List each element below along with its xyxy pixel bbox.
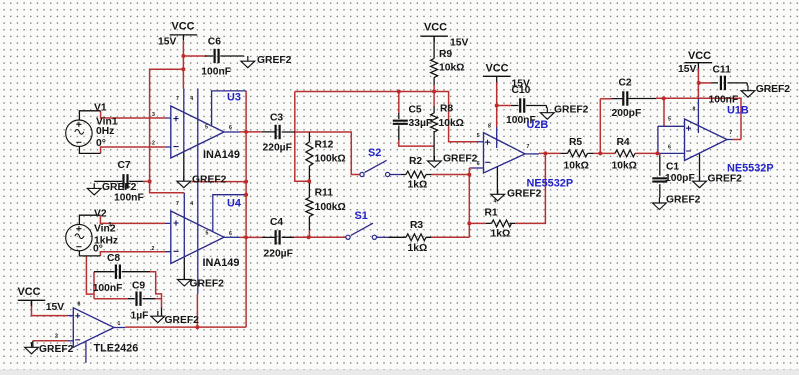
svg-text:VCC: VCC (424, 22, 447, 34)
svg-text:C11: C11 (713, 64, 732, 75)
svg-text:C10: C10 (512, 85, 531, 96)
svg-text:6: 6 (668, 145, 671, 151)
svg-text:10kΩ: 10kΩ (439, 118, 464, 129)
svg-text:C9: C9 (132, 280, 145, 291)
svg-text:5: 5 (477, 133, 480, 139)
svg-text:8: 8 (78, 301, 81, 307)
svg-text:5: 5 (668, 117, 671, 123)
svg-text:VCC: VCC (688, 50, 711, 62)
svg-text:10kΩ: 10kΩ (564, 160, 589, 171)
svg-text:15V: 15V (46, 302, 64, 313)
svg-text:R4: R4 (617, 137, 630, 148)
svg-text:0°: 0° (93, 244, 103, 255)
svg-text:7: 7 (176, 201, 179, 207)
svg-text:7: 7 (527, 144, 530, 150)
svg-text:C6: C6 (208, 36, 221, 47)
svg-text:U2B: U2B (527, 119, 549, 131)
svg-text:8: 8 (488, 124, 491, 130)
svg-text:U4: U4 (227, 198, 241, 210)
svg-text:C3: C3 (270, 113, 283, 124)
svg-text:S2: S2 (368, 147, 381, 159)
svg-text:U3: U3 (227, 91, 241, 103)
svg-text:R8: R8 (440, 104, 453, 115)
svg-text:200pF: 200pF (612, 108, 642, 119)
svg-text:220µF: 220µF (264, 248, 293, 259)
svg-text:5: 5 (205, 125, 208, 131)
svg-text:U1B: U1B (727, 105, 749, 117)
svg-text:VCC: VCC (172, 21, 195, 33)
svg-text:R12: R12 (315, 139, 334, 150)
svg-text:2: 2 (152, 140, 155, 146)
svg-text:1: 1 (118, 321, 121, 327)
svg-text:R9: R9 (439, 49, 452, 60)
svg-text:220µF: 220µF (263, 143, 292, 154)
svg-text:C4: C4 (270, 217, 283, 228)
svg-text:NE5532P: NE5532P (527, 178, 574, 190)
svg-text:R3: R3 (410, 220, 423, 231)
svg-text:GREF2: GREF2 (507, 189, 542, 200)
svg-text:VCC: VCC (486, 63, 509, 75)
svg-text:15V: 15V (450, 37, 468, 48)
svg-text:100pF: 100pF (665, 173, 695, 184)
svg-text:NE5532P: NE5532P (727, 162, 774, 174)
svg-text:INA149: INA149 (203, 149, 240, 161)
svg-text:S1: S1 (355, 210, 368, 222)
svg-text:V1: V1 (94, 102, 107, 113)
svg-text:GREF2: GREF2 (708, 174, 743, 185)
svg-text:GREF2: GREF2 (190, 278, 225, 289)
svg-text:GREF2: GREF2 (192, 175, 227, 186)
svg-text:7: 7 (729, 130, 732, 136)
svg-text:V2: V2 (94, 209, 107, 220)
svg-text:33µF: 33µF (409, 118, 433, 129)
svg-text:0Hz: 0Hz (96, 126, 114, 137)
svg-text:6: 6 (477, 161, 480, 167)
svg-text:2: 2 (152, 246, 155, 252)
svg-text:TLE2426: TLE2426 (94, 343, 139, 355)
svg-text:10kΩ: 10kΩ (612, 160, 637, 171)
svg-text:1µF: 1µF (131, 311, 149, 322)
svg-text:R5: R5 (569, 137, 582, 148)
svg-text:R2: R2 (409, 156, 422, 167)
svg-text:GREF2: GREF2 (554, 104, 589, 115)
svg-text:GREF2: GREF2 (443, 153, 478, 164)
svg-text:C5: C5 (409, 105, 422, 116)
svg-text:15V: 15V (678, 64, 696, 75)
svg-text:0°: 0° (96, 138, 106, 149)
svg-text:VCC: VCC (18, 286, 41, 298)
svg-text:15V: 15V (158, 37, 176, 48)
svg-text:7: 7 (176, 96, 179, 102)
svg-text:GREF2: GREF2 (666, 195, 701, 206)
svg-text:C2: C2 (619, 78, 632, 89)
svg-text:C8: C8 (107, 253, 120, 264)
svg-text:R1: R1 (485, 207, 498, 218)
svg-text:C7: C7 (118, 160, 131, 171)
svg-text:8: 8 (693, 107, 696, 113)
svg-text:4: 4 (190, 201, 193, 207)
svg-text:C1: C1 (666, 162, 679, 173)
svg-text:100kΩ: 100kΩ (315, 202, 346, 213)
svg-text:GREF2: GREF2 (257, 55, 292, 66)
svg-text:100nF: 100nF (114, 192, 144, 203)
svg-text:5: 5 (206, 231, 209, 237)
svg-text:Vin2: Vin2 (94, 224, 116, 235)
svg-text:6: 6 (229, 125, 232, 131)
svg-text:100kΩ: 100kΩ (315, 154, 346, 165)
svg-text:100nF: 100nF (201, 67, 231, 78)
svg-text:INA149: INA149 (203, 257, 240, 269)
svg-text:4: 4 (190, 96, 193, 102)
svg-text:GREF2: GREF2 (756, 84, 791, 95)
svg-text:1kΩ: 1kΩ (408, 180, 428, 191)
svg-text:10kΩ: 10kΩ (439, 63, 464, 74)
svg-text:3: 3 (152, 112, 155, 118)
svg-text:R11: R11 (315, 187, 334, 198)
svg-text:4: 4 (494, 198, 497, 204)
svg-text:2: 2 (55, 333, 58, 339)
svg-text:3: 3 (109, 222, 112, 228)
svg-text:GREF2: GREF2 (165, 315, 200, 326)
svg-text:1kΩ: 1kΩ (491, 228, 511, 239)
svg-text:6: 6 (229, 231, 232, 237)
svg-text:GREF2: GREF2 (39, 344, 74, 355)
svg-text:100nF: 100nF (93, 283, 123, 294)
svg-text:1kΩ: 1kΩ (408, 243, 428, 254)
